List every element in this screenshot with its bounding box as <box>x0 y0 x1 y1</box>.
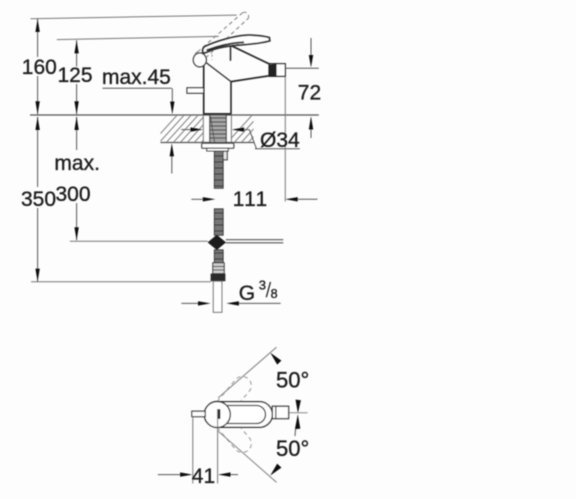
svg-text:8: 8 <box>271 287 278 301</box>
svg-text:3: 3 <box>259 277 266 292</box>
svg-text:125: 125 <box>58 64 93 87</box>
svg-text:300: 300 <box>56 183 91 206</box>
svg-text:50°: 50° <box>276 368 309 393</box>
svg-text:G: G <box>239 282 255 305</box>
svg-text:41: 41 <box>192 465 215 488</box>
svg-text:50°: 50° <box>276 436 309 461</box>
svg-text:Ø34: Ø34 <box>260 129 300 152</box>
svg-text:max.: max. <box>54 152 100 175</box>
svg-text:max.45: max.45 <box>102 66 171 89</box>
svg-text:72: 72 <box>298 82 321 105</box>
svg-text:111: 111 <box>233 188 269 211</box>
svg-text:160: 160 <box>22 56 57 79</box>
svg-text:350: 350 <box>21 188 56 211</box>
